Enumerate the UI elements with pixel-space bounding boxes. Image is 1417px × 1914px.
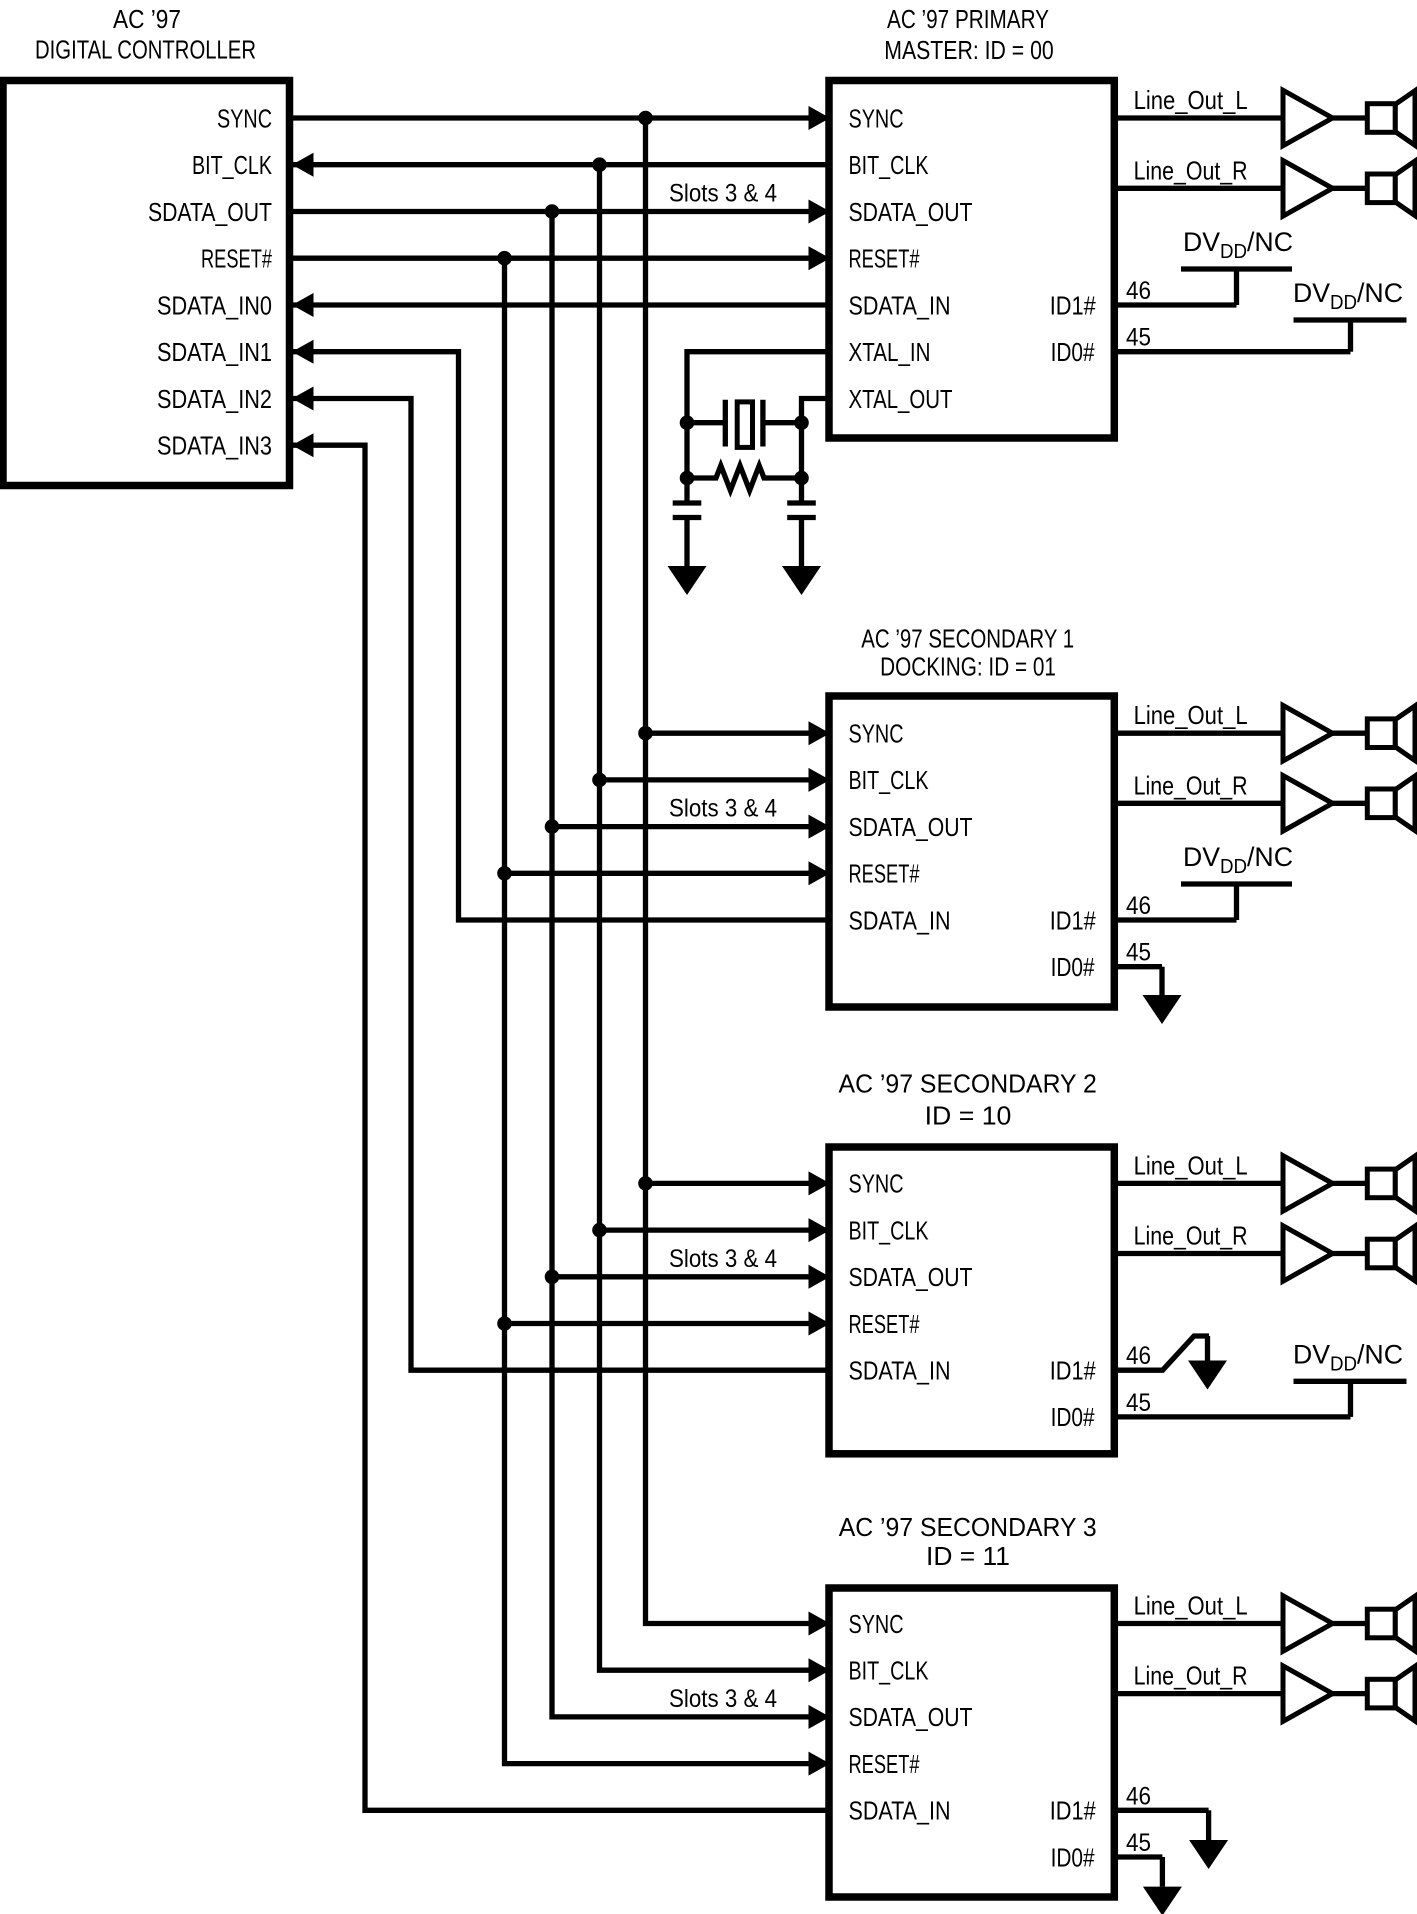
svg-text:ID0#: ID0#: [1051, 337, 1095, 367]
svg-text:46: 46: [1126, 892, 1151, 920]
svg-text:BIT_CLK: BIT_CLK: [849, 150, 929, 180]
amplifier secondary2 Line_Out_R: [1283, 1226, 1333, 1282]
svg-text:DOCKING: ID = 01: DOCKING: ID = 01: [880, 651, 1056, 681]
wire SYNC bus vertical: [646, 118, 830, 1624]
svg-text:SDATA_IN: SDATA_IN: [849, 290, 951, 320]
wire secondary2 Line_Out_R line out: [1114, 1251, 1283, 1256]
AC 97 secondary codec 3: [829, 1588, 1114, 1897]
ground: [684, 520, 689, 566]
svg-text:RESET#: RESET#: [849, 1749, 920, 1779]
svg-text:RESET#: RESET#: [849, 859, 920, 889]
wire SDATA_OUT to secondary 2: [552, 1274, 829, 1279]
wire SYNC to secondary 2: [646, 1181, 830, 1186]
svg-text:AC ’97 SECONDARY 2: AC ’97 SECONDARY 2: [839, 1068, 1097, 1098]
wire RESET# to secondary 2: [505, 1321, 830, 1326]
node crystal right: [794, 415, 809, 430]
svg-text:XTAL_OUT: XTAL_OUT: [849, 384, 953, 414]
amplifier secondary3 Line_Out_R: [1283, 1666, 1333, 1722]
svg-text:ID0#: ID0#: [1051, 952, 1095, 982]
svg-text:/NC: /NC: [1357, 278, 1403, 308]
AC 97 digital controller U1: [3, 81, 290, 486]
speaker secondary3 Line_Out_L: [1367, 1609, 1395, 1638]
svg-text:SDATA_IN3: SDATA_IN3: [157, 431, 272, 461]
wire s1 ID0# pin45: [1114, 964, 1162, 969]
svg-text:Line_Out_R: Line_Out_R: [1134, 770, 1248, 800]
svg-text:DD: DD: [1220, 241, 1247, 263]
wire XTAL_IN to crystal: [687, 352, 829, 423]
node SYNC junction s1: [638, 726, 653, 741]
svg-text:BIT_CLK: BIT_CLK: [849, 765, 929, 795]
wire SDATA_IN0 primary to controller: [292, 302, 829, 307]
ground: [1206, 1810, 1211, 1840]
ground: [799, 520, 804, 566]
wire RESET# to secondary 1: [505, 871, 830, 876]
svg-text:ID1#: ID1#: [1050, 1356, 1096, 1386]
svg-text:RESET#: RESET#: [201, 244, 272, 274]
wire RESET# bus vertical: [505, 258, 830, 1763]
svg-text:RESET#: RESET#: [849, 1309, 920, 1339]
svg-text:AC ’97 SECONDARY 3: AC ’97 SECONDARY 3: [839, 1512, 1097, 1542]
ground: [1159, 967, 1164, 995]
wire secondary3 Line_Out_L line out: [1114, 1621, 1283, 1626]
wire primary Line_Out_L line out: [1114, 115, 1283, 120]
svg-text:/NC: /NC: [1247, 227, 1293, 257]
svg-text:SDATA_OUT: SDATA_OUT: [849, 1262, 973, 1292]
node RESET# junction s2: [497, 1316, 512, 1331]
wire amp to speaker: [1333, 1691, 1368, 1696]
svg-text:SDATA_IN0: SDATA_IN0: [157, 290, 272, 320]
AC 97 primary codec U2: [829, 81, 1114, 439]
wire primary ID0# pin45: [1114, 349, 1350, 354]
svg-text:45: 45: [1126, 324, 1151, 352]
wire stem s2 ID0#: [1348, 1381, 1353, 1417]
svg-text:/NC: /NC: [1247, 842, 1293, 872]
svg-text:SDATA_IN: SDATA_IN: [849, 1356, 951, 1386]
svg-text:DV: DV: [1293, 1339, 1330, 1369]
svg-text:SYNC: SYNC: [217, 103, 272, 133]
power rail s1 ID1#: [1181, 881, 1292, 886]
svg-text:Slots 3 & 4: Slots 3 & 4: [669, 1685, 777, 1713]
wire secondary1 Line_Out_L line out: [1114, 731, 1283, 736]
wire SDATA_OUT to secondary 1: [552, 824, 829, 829]
svg-text:AC ’97 PRIMARY: AC ’97 PRIMARY: [887, 4, 1049, 34]
amplifier secondary3 Line_Out_L: [1283, 1596, 1333, 1652]
amplifier secondary2 Line_Out_L: [1283, 1156, 1333, 1212]
wire s1 ID1# pin46: [1114, 917, 1236, 922]
svg-text:SDATA_IN: SDATA_IN: [849, 1796, 951, 1826]
wire secondary3 Line_Out_R line out: [1114, 1691, 1283, 1696]
speaker primary Line_Out_L: [1367, 104, 1395, 133]
wire stem primary ID1#: [1234, 269, 1239, 305]
svg-text:SDATA_IN: SDATA_IN: [849, 905, 951, 935]
svg-text:ID1#: ID1#: [1050, 905, 1096, 935]
wire primary ID1# pin46: [1114, 302, 1236, 307]
wire BIT_CLK primary to controller: [292, 162, 829, 167]
capacitor C1: [684, 478, 689, 501]
svg-text:XTAL_IN: XTAL_IN: [849, 337, 931, 367]
svg-text:SDATA_OUT: SDATA_OUT: [849, 812, 973, 842]
svg-text:45: 45: [1126, 939, 1151, 967]
svg-text:Line_Out_R: Line_Out_R: [1134, 155, 1248, 185]
node RESET# junction: [497, 251, 512, 266]
wire SDATA_IN1 from secondary 1: [292, 352, 829, 920]
wire stem s1 ID1#: [1234, 884, 1239, 920]
svg-text:SDATA_OUT: SDATA_OUT: [849, 197, 973, 227]
svg-text:ID1#: ID1#: [1050, 1796, 1096, 1826]
svg-text:45: 45: [1126, 1389, 1151, 1417]
node crystal left: [680, 415, 695, 430]
wire stem primary ID0#: [1348, 320, 1353, 352]
svg-text:DV: DV: [1183, 227, 1220, 257]
svg-text:Line_Out_L: Line_Out_L: [1134, 85, 1248, 115]
node SDATA_OUT junction s1: [545, 819, 560, 834]
speaker secondary1 Line_Out_L: [1367, 719, 1395, 748]
svg-text:SDATA_IN2: SDATA_IN2: [157, 384, 272, 414]
node BIT_CLK junction: [592, 157, 607, 172]
wire amp to speaker: [1333, 115, 1368, 120]
svg-text:SDATA_OUT: SDATA_OUT: [148, 197, 272, 227]
crystal Y1: [687, 420, 725, 425]
svg-text:MASTER: ID = 00: MASTER: ID = 00: [884, 35, 1054, 65]
svg-text:ID = 10: ID = 10: [925, 1100, 1012, 1130]
svg-text:BIT_CLK: BIT_CLK: [849, 1656, 929, 1686]
node resistor right: [794, 471, 809, 486]
wire amp to speaker: [1333, 1621, 1368, 1626]
svg-text:46: 46: [1126, 1782, 1151, 1810]
svg-text:BIT_CLK: BIT_CLK: [192, 150, 272, 180]
wire SYNC to secondary 1: [646, 731, 830, 736]
wire s2 ID0# pin45: [1114, 1414, 1350, 1419]
svg-text:Line_Out_L: Line_Out_L: [1134, 700, 1248, 730]
svg-text:SYNC: SYNC: [849, 719, 904, 749]
svg-text:Line_Out_L: Line_Out_L: [1134, 1591, 1248, 1621]
svg-text:Slots 3 & 4: Slots 3 & 4: [669, 180, 777, 208]
wire amp to speaker: [1333, 1251, 1368, 1256]
svg-text:46: 46: [1126, 1342, 1151, 1370]
speaker secondary1 Line_Out_R: [1367, 789, 1395, 818]
capacitor C2: [799, 478, 804, 501]
wire SDATA_IN2 from secondary 2: [292, 399, 829, 1371]
svg-text:46: 46: [1126, 277, 1151, 305]
svg-text:/NC: /NC: [1357, 1339, 1403, 1369]
wire SDATA_OUT controller to primary: [290, 209, 829, 214]
wire s3 ID1# pin46: [1114, 1808, 1208, 1813]
svg-text:ID = 11: ID = 11: [926, 1541, 1010, 1571]
amplifier primary Line_Out_L: [1283, 90, 1333, 146]
wire SYNC controller to primary: [290, 115, 829, 120]
speaker secondary3 Line_Out_R: [1367, 1679, 1395, 1708]
amplifier secondary1 Line_Out_L: [1283, 705, 1333, 761]
svg-text:DV: DV: [1183, 842, 1220, 872]
svg-text:45: 45: [1126, 1829, 1151, 1857]
svg-text:DV: DV: [1293, 278, 1330, 308]
svg-text:BIT_CLK: BIT_CLK: [849, 1215, 929, 1245]
ground: [1160, 1857, 1165, 1887]
svg-text:SYNC: SYNC: [849, 103, 904, 133]
wire RESET# controller to primary: [290, 256, 829, 261]
wire crystal right node down: [799, 423, 804, 478]
wire s2 ID1# pin46: [1114, 1336, 1209, 1370]
svg-text:DD: DD: [1220, 856, 1247, 878]
amplifier secondary1 Line_Out_R: [1283, 776, 1333, 832]
node SDATA_OUT junction: [545, 204, 560, 219]
wire amp to speaker: [1333, 1181, 1368, 1186]
wire BIT_CLK to secondary 1: [600, 777, 830, 782]
wire amp to speaker: [1333, 186, 1368, 191]
speaker primary Line_Out_R: [1367, 174, 1395, 203]
svg-text:SYNC: SYNC: [849, 1609, 904, 1639]
resistor R1: [687, 466, 802, 491]
wire amp to speaker: [1333, 731, 1368, 736]
svg-text:RESET#: RESET#: [849, 244, 920, 274]
wire SDATA_IN3 from secondary 3: [292, 445, 829, 1810]
wire s3 ID0# pin45: [1114, 1854, 1162, 1859]
node SDATA_OUT junction s2: [545, 1270, 560, 1285]
svg-text:Line_Out_L: Line_Out_L: [1134, 1150, 1248, 1180]
svg-text:SYNC: SYNC: [849, 1169, 904, 1199]
wire amp to speaker: [1333, 801, 1368, 806]
svg-text:DD: DD: [1330, 1353, 1357, 1375]
power rail s2 ID0#: [1294, 1379, 1407, 1384]
svg-text:Slots 3 & 4: Slots 3 & 4: [669, 1245, 777, 1273]
node RESET# junction s1: [497, 866, 512, 881]
node SYNC junction: [638, 111, 653, 126]
node SYNC junction s2: [638, 1176, 653, 1191]
node BIT_CLK junction s2: [592, 1223, 607, 1238]
svg-text:DIGITAL CONTROLLER: DIGITAL CONTROLLER: [35, 34, 256, 64]
power rail primary ID1#: [1181, 266, 1292, 271]
svg-text:Line_Out_R: Line_Out_R: [1134, 1661, 1248, 1691]
wire SDATA_OUT bus vertical: [552, 212, 829, 1717]
wire crystal left node down: [684, 423, 689, 478]
AC 97 secondary codec 2: [829, 1147, 1114, 1454]
node resistor left: [680, 471, 695, 486]
svg-text:ID0#: ID0#: [1051, 1842, 1095, 1872]
wire XTAL_OUT to crystal: [802, 399, 830, 423]
node BIT_CLK junction s1: [592, 773, 607, 788]
speaker secondary2 Line_Out_L: [1367, 1169, 1395, 1198]
svg-text:AC ’97: AC ’97: [113, 4, 181, 34]
svg-text:ID1#: ID1#: [1050, 290, 1096, 320]
ground: [1205, 1336, 1210, 1361]
wire BIT_CLK to secondary 2: [600, 1227, 830, 1232]
speaker secondary2 Line_Out_R: [1367, 1239, 1395, 1268]
svg-text:ID0#: ID0#: [1051, 1402, 1095, 1432]
svg-text:SDATA_IN1: SDATA_IN1: [157, 337, 272, 367]
svg-text:Slots 3 & 4: Slots 3 & 4: [669, 795, 777, 823]
wire secondary1 Line_Out_R line out: [1114, 801, 1283, 806]
svg-text:AC ’97 SECONDARY 1: AC ’97 SECONDARY 1: [861, 624, 1074, 654]
power rail primary ID0#: [1294, 317, 1407, 322]
svg-text:SDATA_OUT: SDATA_OUT: [849, 1702, 973, 1732]
wire secondary2 Line_Out_L line out: [1114, 1181, 1283, 1186]
svg-text:Line_Out_R: Line_Out_R: [1134, 1221, 1248, 1251]
amplifier primary Line_Out_R: [1283, 161, 1333, 217]
wire BIT_CLK bus vertical: [600, 165, 830, 1671]
wire primary Line_Out_R line out: [1114, 186, 1283, 191]
svg-text:DD: DD: [1330, 292, 1357, 314]
AC 97 secondary codec 1: [829, 696, 1114, 1007]
